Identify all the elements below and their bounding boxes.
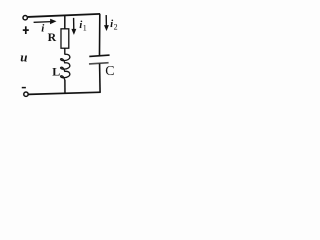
current arrow i xyxy=(34,19,57,24)
capacitor C top plate xyxy=(89,55,109,56)
wire middle branch bottom xyxy=(64,80,66,94)
current arrow i1 xyxy=(71,18,76,35)
capacitor C bottom plate xyxy=(89,63,109,64)
minus polarity mark xyxy=(22,87,26,89)
terminal top-left xyxy=(23,16,27,20)
current arrow i2 xyxy=(104,15,109,31)
wire middle branch top xyxy=(64,15,66,29)
wire top xyxy=(28,14,100,17)
wire right branch lower xyxy=(99,64,102,93)
wire right branch upper xyxy=(98,14,101,56)
resistor R box xyxy=(61,29,69,48)
wire between R and L xyxy=(64,48,66,54)
svg-text:C: C xyxy=(105,64,114,79)
svg-text:1: 1 xyxy=(83,24,87,33)
plus polarity mark xyxy=(23,26,29,34)
svg-text:R: R xyxy=(48,30,57,44)
terminal bottom-left xyxy=(24,92,28,96)
svg-text:L: L xyxy=(52,64,60,78)
inductor L coil xyxy=(61,54,70,80)
svg-text:2: 2 xyxy=(114,23,118,32)
wire bottom xyxy=(28,92,100,94)
svg-text:u: u xyxy=(20,50,27,65)
